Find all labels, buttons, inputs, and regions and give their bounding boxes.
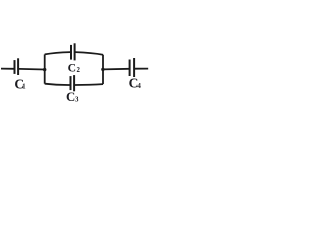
label C4 [129,76,142,91]
capacitor C3 [71,75,75,91]
wire right lead out of C4 [135,68,148,70]
node B junction dot [101,68,104,71]
wire C2 to top-right corner [75,52,103,55]
svg-text:2: 2 [77,67,81,74]
label C3 [66,90,79,104]
capacitor C4 [130,58,135,77]
svg-text:4: 4 [137,82,141,90]
label C1 [14,76,26,91]
svg-text:C: C [68,62,76,75]
wire left lead into C1 [1,68,14,70]
svg-text:1: 1 [22,83,26,91]
wire bottom-left to C3 [45,84,70,85]
wire top-left to C2 [45,52,70,54]
label C2 [68,62,81,75]
node A junction dot [43,68,46,71]
wire left vertical edge [44,54,46,83]
wire C1 to node A [19,68,45,71]
svg-text:C: C [66,90,75,104]
wire node B to C4 [103,68,129,71]
wire C3 to bottom-right corner [75,83,103,86]
svg-text:3: 3 [75,96,79,104]
capacitor C1 [15,58,19,75]
wire right vertical edge [102,55,104,84]
capacitor C2 [71,43,75,60]
